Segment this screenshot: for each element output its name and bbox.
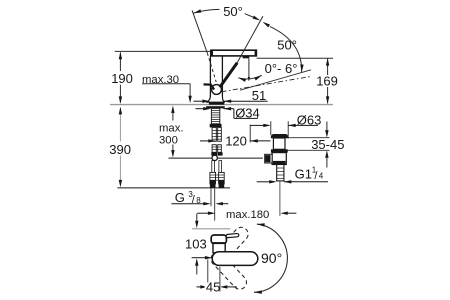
dim 169 vertical	[327, 59, 329, 75]
dashed swivel capsule up-right	[210, 225, 251, 268]
hose nut left	[210, 180, 216, 187]
hose tail left	[210, 172, 216, 184]
spout right cap	[255, 50, 257, 56]
svg-text:0°- 6°: 0°- 6°	[265, 61, 298, 76]
label 103	[183, 238, 207, 250]
dim diam34	[196, 108, 204, 110]
spout bar	[211, 50, 257, 56]
label 190	[110, 72, 132, 84]
spout tilt line solid	[240, 70, 311, 90]
svg-text:35-45: 35-45	[311, 137, 344, 152]
dim 103 vertical	[196, 214, 198, 222]
svg-text:45: 45	[206, 279, 220, 294]
arc 0-6 degrees	[238, 75, 262, 79]
arc 50 handle segment A	[193, 9, 219, 13]
dim max180	[197, 212, 208, 214]
dashed swivel capsule down-right	[208, 249, 249, 292]
lever thick	[220, 63, 237, 87]
svg-text:G1: G1	[295, 166, 312, 181]
hose end reference line	[117, 187, 230, 189]
svg-text:50°: 50°	[277, 38, 297, 53]
handle back-position line dashed	[207, 53, 216, 82]
svg-text:169: 169	[316, 73, 338, 88]
washer band under counter	[206, 106, 225, 108]
plan lever arm	[226, 233, 239, 237]
mask patch over dash spill	[205, 224, 225, 236]
ext verticals below hoses	[210, 189, 212, 207]
extension line at 120 end	[249, 125, 251, 143]
drain centerline	[279, 181, 281, 216]
spout tilt dash-dot line	[222, 76, 312, 91]
water stream line	[248, 58, 250, 79]
drain cap	[271, 134, 288, 138]
dim 390 vertical	[119, 108, 121, 142]
shank nut	[210, 124, 222, 128]
hose right	[219, 161, 222, 173]
hose nut right	[219, 180, 225, 187]
body column left edge	[209, 56, 211, 97]
ext lines 35-45	[288, 137, 329, 139]
svg-text:103: 103	[185, 237, 207, 252]
supply rod right lower	[218, 145, 222, 153]
supply rod right upper	[218, 127, 222, 141]
label 390	[108, 142, 131, 154]
label 45	[205, 282, 219, 291]
ball joint	[212, 85, 222, 95]
dim 120	[200, 140, 209, 142]
svg-text:50°: 50°	[223, 4, 243, 19]
svg-text:51: 51	[252, 88, 266, 103]
dim diam63	[250, 124, 263, 126]
dim 45	[197, 286, 201, 288]
drain body band	[273, 161, 286, 164]
spout extension line left	[115, 50, 211, 52]
svg-text:190: 190	[111, 71, 133, 86]
escutcheon dome	[206, 96, 225, 102]
svg-text:8: 8	[196, 196, 201, 205]
svg-text:max.: max.	[159, 122, 183, 134]
supply rod left lower	[212, 145, 216, 153]
threaded shank	[211, 108, 219, 123]
lever thin extension	[237, 16, 263, 63]
back paddle	[204, 84, 215, 89]
counter top line	[110, 104, 333, 106]
svg-text:4: 4	[319, 172, 324, 181]
supply rod left upper	[212, 127, 216, 141]
svg-text:Ø63: Ø63	[297, 113, 322, 128]
svg-text:90°: 90°	[261, 250, 282, 266]
plan handle bottom edge	[212, 242, 226, 244]
dim 35-45 vertical	[326, 122, 328, 131]
ext verticals 45	[207, 260, 209, 292]
hose left	[212, 161, 215, 173]
dim max300 vertical	[171, 106, 174, 114]
label 169	[315, 76, 338, 87]
handle back-position line solid	[192, 10, 207, 53]
dim 190 vertical	[119, 52, 121, 71]
arc 50 swivel	[270, 26, 302, 72]
plan spout capsule	[212, 252, 258, 266]
pull rod node	[212, 155, 217, 160]
dim G3/8	[171, 203, 203, 205]
rod nut right	[217, 152, 222, 155]
dim G1 1/4	[257, 181, 270, 183]
rod nut left	[211, 152, 217, 155]
plan handle paddle	[211, 235, 226, 244]
spout left cap	[211, 50, 213, 56]
hose tail right	[219, 172, 225, 184]
drain flange	[271, 149, 288, 152]
svg-text:300: 300	[159, 134, 178, 146]
arc 50 handle segment B	[245, 14, 254, 17]
body column right edge	[221, 56, 223, 96]
spout extension line right	[257, 57, 333, 59]
drain side stub	[265, 154, 272, 163]
pull rod line to drain	[169, 157, 263, 159]
arc 90 swivel	[254, 224, 287, 292]
svg-text:Ø34: Ø34	[235, 106, 260, 121]
aerator	[243, 56, 250, 58]
svg-text:max.180: max.180	[226, 209, 269, 221]
leader at capsule left	[192, 257, 206, 259]
dim 51	[194, 100, 203, 102]
svg-text:390: 390	[109, 142, 131, 157]
plan body	[213, 243, 225, 252]
drain body	[272, 153, 286, 165]
escutcheon base band	[209, 102, 224, 105]
drain tailpipe	[277, 165, 284, 181]
svg-text:G: G	[175, 190, 185, 205]
drain neck	[273, 138, 285, 149]
ext lines diam63	[270, 121, 272, 135]
svg-text:120: 120	[225, 134, 247, 149]
